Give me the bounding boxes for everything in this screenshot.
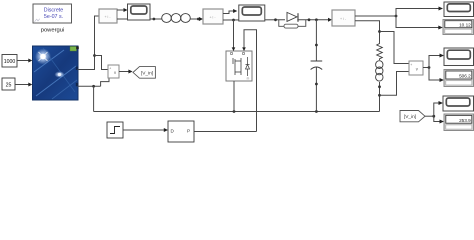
wire step to PWM generator	[123, 129, 165, 131]
current measurement CM3	[332, 10, 355, 26]
constant block 1000 (Irradiance)	[2, 55, 17, 68]
from tag V_in	[400, 111, 425, 122]
voltage measurement V1	[108, 65, 119, 78]
wire to display Disp3	[434, 116, 440, 121]
wire V1 to Goto tag	[119, 71, 129, 73]
MOSFET block	[226, 51, 252, 81]
wire 1000 to PV	[17, 60, 30, 62]
scope S3	[444, 2, 474, 17]
wire CM2 signal to scope S2	[223, 11, 234, 14]
node A junction	[232, 19, 235, 22]
capacitor C	[311, 61, 323, 70]
node diode right port	[308, 18, 311, 21]
wire junction to display Disp1	[396, 16, 439, 28]
svg-text:+ i -: + i -	[209, 16, 216, 20]
node load top junction	[378, 30, 381, 33]
wire PV- down to ground rail	[93, 86, 95, 111]
resistor R load	[377, 42, 383, 60]
wire gate riser	[244, 30, 257, 132]
wire PV- horizontal	[78, 85, 101, 87]
wire node to V2 plus	[380, 32, 410, 64]
svg-text:[V_in]: [V_in]	[404, 114, 416, 120]
powergui block	[33, 4, 72, 23]
current measurement CM2	[203, 9, 223, 24]
bottom rail wire	[94, 111, 380, 113]
scope S2	[239, 5, 265, 21]
scope S1	[128, 4, 151, 20]
wire from tag to junction	[425, 115, 434, 117]
svg-text:powergui: powergui	[41, 28, 65, 34]
wire diode to CM3	[297, 19, 329, 21]
node capacitor bottom terminal	[315, 83, 318, 86]
node inductor left terminal	[153, 18, 156, 21]
wire junction to scope S3	[396, 9, 439, 17]
inductor L1	[162, 14, 191, 23]
wire PWM P output to gate riser	[194, 131, 257, 133]
current measurement CM1	[99, 9, 117, 23]
wire V2 out junction	[423, 67, 429, 69]
node B capacitor tap	[315, 18, 318, 21]
svg-text:+: +	[410, 63, 412, 67]
wire to scope S5	[434, 103, 439, 116]
display Disp1 10.12	[443, 20, 474, 35]
goto tag V_in	[133, 67, 155, 79]
node PV- junction	[92, 85, 95, 88]
svg-text:25: 25	[6, 82, 12, 88]
wire PV+ node to V1 plus	[95, 56, 109, 70]
step block	[107, 122, 123, 138]
capacitor branch wire bottom	[315, 68, 317, 112]
node capacitor bottom on rail	[315, 110, 318, 113]
scope S4	[444, 48, 474, 66]
svg-text:[V_in]: [V_in]	[141, 70, 153, 76]
wire CM3 signal to junction	[355, 15, 396, 17]
node PV+ branch junction	[93, 54, 96, 57]
wire PV+ to current measurement riser	[78, 16, 100, 70]
wire to display Disp2	[429, 68, 440, 81]
wire PV- to V1 minus	[101, 78, 109, 86]
diode snubber	[279, 20, 306, 28]
svg-text:506.2: 506.2	[459, 74, 471, 79]
scope S5	[443, 96, 474, 111]
svg-text:P: P	[187, 129, 190, 134]
display Disp2 506.2	[444, 70, 474, 87]
wire V2 minus	[380, 72, 410, 96]
wire CM1 to inductor	[117, 18, 162, 20]
display Disp3 253.9	[444, 114, 474, 131]
wire load bottom	[379, 82, 381, 112]
constant block 25 (Temperature)	[2, 78, 15, 90]
wire MOSFET source to rail	[233, 81, 235, 112]
PV array block	[33, 46, 79, 100]
wire node A to MOSFET drain	[233, 20, 235, 51]
svg-text:1000: 1000	[4, 59, 16, 65]
wire 25 to PV	[15, 84, 30, 86]
svg-text:5e-07 s.: 5e-07 s.	[44, 14, 63, 20]
wire inductor to CM2	[190, 18, 200, 20]
node inductor right terminal	[197, 18, 200, 21]
node capacitor top terminal	[315, 44, 318, 47]
wire CM3 electrical out to load node	[355, 21, 380, 42]
svg-text:253.9: 253.9	[459, 118, 471, 123]
voltage measurement V2	[409, 61, 423, 75]
svg-text:10.12: 10.12	[459, 23, 471, 28]
svg-text:+ i -: + i -	[104, 15, 111, 19]
capacitor C branch wire top	[315, 20, 317, 61]
PWM generator block	[168, 121, 194, 142]
node diode left port	[274, 18, 277, 21]
svg-text:Discrete: Discrete	[44, 8, 63, 14]
inductor L2 load	[376, 61, 383, 81]
svg-text:+: +	[109, 67, 111, 71]
svg-text:m: m	[247, 77, 250, 81]
wire CM2 to diode (node A)	[223, 19, 285, 21]
node MOSFET source on rail	[233, 110, 236, 113]
node load bottom terminal	[378, 85, 381, 88]
node signal junction	[395, 15, 398, 18]
diode D1	[287, 12, 298, 21]
wire to scope S4	[429, 56, 440, 68]
node V2 minus tap	[378, 94, 381, 97]
svg-text:+ i -: + i -	[340, 17, 347, 21]
wire CM1 signal to scope S1	[117, 9, 125, 11]
